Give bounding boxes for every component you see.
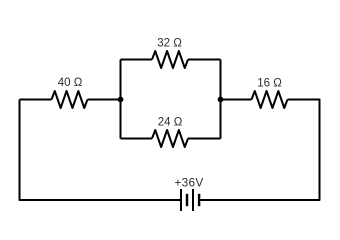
resistor R2 32 Ohm	[152, 51, 188, 68]
node B junction dot right	[218, 97, 224, 103]
wire: top branch right segment	[188, 59, 221, 61]
resistor R1 40 Ohm	[52, 91, 88, 108]
wire: top-left corner to 40-ohm resistor	[20, 99, 52, 101]
wire: left rail and bottom-left to battery	[20, 100, 181, 201]
svg-text:+36V: +36V	[174, 176, 203, 190]
svg-text:40 Ω: 40 Ω	[58, 77, 83, 89]
node A junction dot left	[118, 97, 124, 103]
svg-text:16 Ω: 16 Ω	[257, 77, 282, 89]
wire: parallel block right vertical	[220, 60, 222, 139]
wire: bottom branch right segment	[188, 138, 221, 140]
battery V1 plate long left	[180, 189, 182, 211]
svg-text:32 Ω: 32 Ω	[157, 37, 182, 49]
wire: 40-ohm to left junction node	[88, 99, 121, 101]
svg-text:24 Ω: 24 Ω	[158, 116, 183, 128]
wire: parallel block left vertical	[120, 60, 122, 139]
wire: battery to bottom-right, right rail up to 16-ohm	[200, 100, 319, 201]
battery V1 plate short	[186, 194, 188, 206]
battery V1 plate short right	[198, 194, 200, 206]
resistor R4 16 Ohm	[252, 91, 288, 108]
resistor R3 24 Ohm	[152, 130, 188, 147]
wire: bottom branch left segment	[121, 138, 153, 140]
wire: top branch left segment	[121, 59, 153, 61]
battery V1 plate long right	[192, 189, 194, 211]
wire: right junction node to 16-ohm	[221, 99, 252, 101]
